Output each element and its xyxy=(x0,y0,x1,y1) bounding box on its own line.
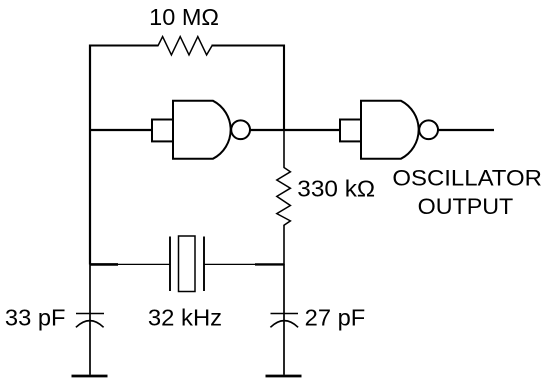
ground bar right xyxy=(266,375,302,378)
inverter U2 input box xyxy=(340,120,361,142)
wire: crystal row thick segment right (node) xyxy=(255,263,284,265)
crystal Y1 left plate xyxy=(169,237,171,292)
wire: left vertical rail lower xyxy=(89,264,91,375)
wire: right vertical rail lower xyxy=(283,264,285,375)
inverter U1 input box xyxy=(152,120,173,142)
svg-text:32 kHz: 32 kHz xyxy=(148,304,222,330)
svg-text:OSCILLATOR: OSCILLATOR xyxy=(392,166,542,191)
inverter U2 body xyxy=(361,101,419,159)
crystal Y1 body rectangle xyxy=(179,236,196,292)
svg-text:10 MΩ: 10 MΩ xyxy=(149,4,219,30)
inverter U1 body xyxy=(173,101,231,159)
capacitor C2 curved plate xyxy=(270,321,298,328)
resistor R2 330 kohm zigzag xyxy=(277,167,291,225)
wire: crystal row thin segment right xyxy=(204,263,255,265)
wire: node to resistor R2 top lead xyxy=(283,130,285,168)
wire: top feedback wire left segment xyxy=(89,44,159,46)
ground bar left xyxy=(72,375,108,378)
capacitor C1 top plate xyxy=(76,313,104,315)
wire: crystal row thin segment left xyxy=(118,263,170,265)
wire: gate1 output to gate2 input xyxy=(250,129,341,131)
wire: resistor R2 bottom lead to crystal row xyxy=(283,225,285,264)
capacitor C1 curved plate xyxy=(76,321,104,328)
wire: right vertical from top wire down to gate1 output node xyxy=(283,45,285,132)
svg-text:27 pF: 27 pF xyxy=(305,304,366,330)
wire: gate1 input wire xyxy=(90,129,153,131)
crystal Y1 right plate xyxy=(203,237,205,292)
wire: top feedback wire right segment xyxy=(212,44,286,46)
wire: left vertical rail upper xyxy=(89,45,91,265)
capacitor C2 top plate xyxy=(271,313,299,315)
resistor R1 10 Mohm zigzag xyxy=(158,37,212,55)
svg-text:OUTPUT: OUTPUT xyxy=(418,194,514,219)
wire: oscillator output lead xyxy=(438,129,494,131)
wire: crystal row thick segment left (node) xyxy=(90,263,118,266)
inverter U2 output bubble xyxy=(419,120,438,139)
svg-text:33 pF: 33 pF xyxy=(5,304,66,330)
inverter U1 output bubble xyxy=(231,120,250,139)
svg-text:330 kΩ: 330 kΩ xyxy=(297,175,375,201)
